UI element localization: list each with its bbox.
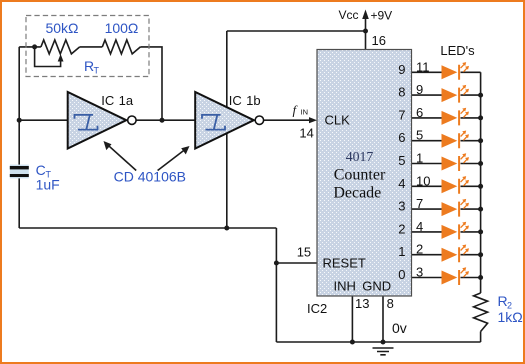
- svg-text:3: 3: [398, 199, 405, 214]
- svg-text:16: 16: [372, 33, 386, 48]
- svg-text:10: 10: [416, 173, 430, 188]
- svg-text:4: 4: [416, 219, 423, 234]
- svg-text:Decade: Decade: [333, 185, 381, 202]
- svg-text:CLK: CLK: [325, 113, 351, 128]
- svg-text:11: 11: [416, 59, 430, 74]
- svg-text:CD 40106B: CD 40106B: [114, 169, 186, 185]
- svg-text:4: 4: [398, 176, 405, 191]
- svg-text:0v: 0v: [392, 320, 407, 336]
- svg-text:IC: IC: [229, 93, 242, 108]
- svg-text:T: T: [94, 66, 100, 76]
- svg-text:13: 13: [355, 296, 369, 311]
- svg-text:1kΩ: 1kΩ: [498, 309, 523, 325]
- svg-text:100Ω: 100Ω: [105, 20, 139, 36]
- svg-text:14: 14: [299, 126, 313, 141]
- svg-text:+9V: +9V: [371, 9, 393, 23]
- svg-text:IC2: IC2: [307, 301, 327, 316]
- svg-text:2: 2: [416, 242, 423, 257]
- svg-text:LED's: LED's: [440, 43, 475, 58]
- svg-text:INH: INH: [334, 279, 356, 294]
- svg-text:5: 5: [398, 153, 405, 168]
- svg-text:4017: 4017: [346, 149, 374, 164]
- svg-text:1uF: 1uF: [36, 177, 60, 193]
- svg-text:GND: GND: [362, 279, 391, 294]
- svg-text:50kΩ: 50kΩ: [45, 20, 78, 36]
- svg-text:6: 6: [416, 105, 423, 120]
- svg-text:0: 0: [398, 267, 405, 282]
- svg-text:2: 2: [398, 221, 405, 236]
- svg-text:8: 8: [398, 85, 405, 100]
- svg-text:9: 9: [398, 62, 405, 77]
- svg-text:8: 8: [387, 296, 394, 311]
- svg-text:1a: 1a: [119, 93, 134, 108]
- svg-text:6: 6: [398, 130, 405, 145]
- svg-text:Vcc: Vcc: [338, 8, 358, 22]
- svg-text:7: 7: [398, 107, 405, 122]
- svg-text:3: 3: [416, 265, 423, 280]
- svg-text:7: 7: [416, 196, 423, 211]
- svg-text:5: 5: [416, 128, 423, 143]
- svg-text:1: 1: [398, 244, 405, 259]
- svg-text:1: 1: [416, 151, 423, 166]
- svg-text:IN: IN: [301, 108, 309, 117]
- svg-text:Counter: Counter: [334, 167, 386, 184]
- svg-text:IC: IC: [101, 93, 114, 108]
- svg-text:1b: 1b: [246, 93, 260, 108]
- svg-text:RESET: RESET: [323, 256, 366, 271]
- svg-text:9: 9: [416, 82, 423, 97]
- svg-text:15: 15: [297, 245, 311, 260]
